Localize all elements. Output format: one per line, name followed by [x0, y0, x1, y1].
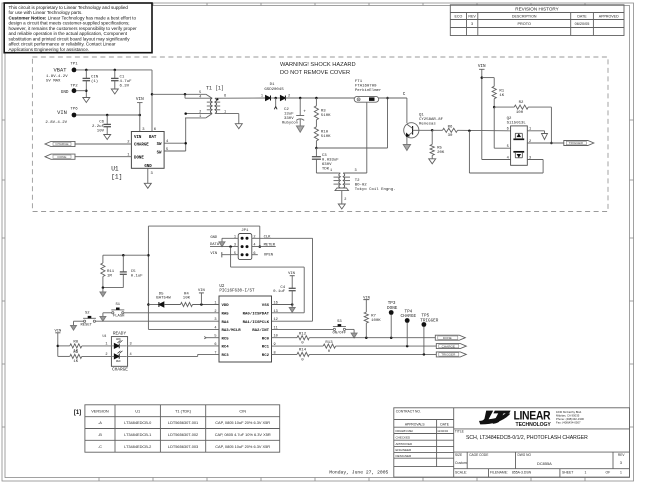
- svg-text:1K: 1K: [499, 94, 504, 98]
- svg-text:APPROVED: APPROVED: [396, 442, 414, 446]
- svg-text:REV: REV: [468, 15, 476, 19]
- svg-text:D1: D1: [270, 83, 275, 87]
- svg-text:RED: RED: [116, 360, 121, 363]
- svg-text:100K: 100K: [371, 319, 381, 323]
- svg-text:06/20/05: 06/20/05: [575, 22, 590, 26]
- svg-text:10V: 10V: [97, 130, 105, 134]
- svg-text:LT3484EDCB-0: LT3484EDCB-0: [124, 420, 152, 425]
- svg-text:CHARGE: CHARGE: [112, 368, 128, 373]
- svg-text:3: 3: [355, 169, 357, 173]
- svg-text:R2: R2: [519, 101, 524, 105]
- svg-text:CAGE CODE: CAGE CODE: [469, 453, 488, 457]
- svg-text:REV: REV: [618, 453, 625, 457]
- svg-text:-A: -A: [98, 420, 102, 425]
- svg-text:RC2: RC2: [262, 354, 270, 358]
- svg-text:3: 3: [620, 460, 622, 465]
- svg-text:R12: R12: [299, 332, 307, 336]
- svg-text:[1]: [1]: [74, 410, 81, 416]
- svg-text:DATE: DATE: [440, 422, 449, 426]
- svg-text:20K: 20K: [437, 151, 445, 155]
- svg-text:6.3V: 6.3V: [120, 85, 130, 89]
- svg-text:LDT565630T-002: LDT565630T-002: [168, 432, 198, 437]
- svg-text:WARNING! SHOCK HAZARD: WARNING! SHOCK HAZARD: [280, 62, 356, 68]
- svg-text:1: 1: [199, 115, 201, 119]
- svg-text:GND: GND: [210, 236, 218, 240]
- svg-text:RA2/INT: RA2/INT: [252, 328, 269, 333]
- svg-text:1: 1: [261, 94, 263, 98]
- svg-text:R11: R11: [107, 270, 115, 274]
- svg-text:LINEAR: LINEAR: [513, 410, 550, 423]
- svg-text:METER: METER: [264, 243, 276, 247]
- svg-text:0.033uF: 0.033uF: [322, 158, 339, 162]
- svg-text:RC0: RC0: [262, 337, 270, 341]
- svg-text:design a circuit that meets cu: design a circuit that meets customer-sup…: [9, 21, 130, 26]
- svg-text:FILENAME:: FILENAME:: [490, 471, 508, 475]
- svg-text:however, it remains the custom: however, it remains the customers respon…: [9, 26, 138, 31]
- svg-text:R9: R9: [73, 351, 78, 355]
- svg-text:510K: 510K: [321, 135, 331, 139]
- svg-text:S3: S3: [337, 320, 342, 324]
- svg-text:R6: R6: [448, 125, 453, 129]
- svg-text:RA5: RA5: [222, 312, 230, 316]
- svg-text:1: 1: [224, 110, 226, 114]
- svg-text:CLK: CLK: [264, 235, 272, 239]
- svg-text:CHECKED: CHECKED: [396, 436, 412, 440]
- svg-text:JP1: JP1: [241, 229, 249, 233]
- svg-text:Custom: Custom: [455, 461, 467, 465]
- svg-text:TITLE: TITLE: [455, 429, 465, 433]
- svg-text:1: 1: [620, 471, 622, 475]
- svg-text:RA3/MCLR: RA3/MCLR: [222, 328, 242, 333]
- svg-text:BO-02: BO-02: [355, 184, 368, 188]
- svg-text:ENGINEER: ENGINEER: [396, 448, 413, 452]
- svg-text:CIN: CIN: [239, 408, 246, 413]
- svg-text:REVISION HISTORY: REVISION HISTORY: [515, 7, 558, 12]
- svg-text:VIN: VIN: [478, 64, 486, 69]
- svg-text:RA0/ICSPDAT: RA0/ICSPDAT: [243, 311, 270, 316]
- svg-text:VBAT: VBAT: [54, 67, 68, 73]
- svg-text:10K: 10K: [183, 297, 191, 301]
- svg-text:4: 4: [130, 353, 132, 357]
- svg-text:DONE: DONE: [134, 156, 144, 160]
- svg-text:R3: R3: [321, 110, 326, 114]
- svg-text:DESIGNER: DESIGNER: [396, 454, 413, 458]
- svg-text:2: 2: [199, 111, 201, 115]
- svg-text:PIC16F630-I/ST: PIC16F630-I/ST: [219, 288, 255, 293]
- svg-text:SIZE: SIZE: [455, 453, 462, 457]
- svg-text:6: 6: [507, 128, 509, 132]
- svg-text:510K: 510K: [321, 114, 331, 118]
- svg-text:11/02/04: 11/02/04: [437, 429, 448, 433]
- svg-text:DONE: DONE: [387, 306, 398, 311]
- svg-text:DC855A: DC855A: [537, 461, 552, 466]
- svg-text:FTA160709: FTA160709: [355, 85, 377, 89]
- svg-text:SW: SW: [157, 143, 162, 147]
- svg-text:-C: -C: [98, 444, 102, 449]
- svg-text:100: 100: [516, 111, 524, 115]
- svg-text:CY258AR-8F: CY258AR-8F: [419, 118, 444, 122]
- svg-text:30: 30: [448, 134, 453, 138]
- svg-text:3: 3: [234, 244, 236, 248]
- svg-text:T2: T2: [355, 179, 360, 183]
- svg-text:substitution and printed circu: substitution and printed circuit board l…: [9, 36, 131, 41]
- svg-text:affect circuit performance or: affect circuit performance or reliabilit…: [9, 42, 116, 47]
- svg-text:OPEN: OPEN: [264, 254, 273, 258]
- svg-text:LT3484EDCB-2: LT3484EDCB-2: [124, 444, 151, 449]
- svg-text:R10: R10: [321, 130, 329, 134]
- svg-text:4: 4: [253, 244, 255, 248]
- svg-text:Applications Engineering for a: Applications Engineering for assistance.: [9, 47, 90, 52]
- svg-text:5V MAX: 5V MAX: [46, 80, 61, 84]
- svg-text:1K: 1K: [73, 360, 78, 364]
- svg-text:+: +: [303, 110, 306, 115]
- svg-text:VIN: VIN: [134, 136, 142, 140]
- svg-text:RC1: RC1: [262, 346, 270, 350]
- svg-text:2.2uF: 2.2uF: [92, 125, 105, 129]
- svg-text:2: 2: [253, 235, 255, 239]
- svg-text:PROTO: PROTO: [517, 22, 530, 26]
- svg-text:T1 (TDK): T1 (TDK): [175, 408, 192, 413]
- svg-text:TP6: TP6: [70, 108, 78, 112]
- svg-text:DRAWN MEI: DRAWN MEI: [396, 429, 414, 433]
- svg-text:FT1: FT1: [355, 80, 363, 84]
- svg-text:3: 3: [130, 343, 132, 347]
- svg-text:13uF: 13uF: [284, 113, 294, 117]
- svg-text:330V: 330V: [284, 117, 294, 121]
- svg-text:GND: GND: [61, 90, 69, 95]
- svg-text:Si15013L: Si15013L: [507, 121, 527, 126]
- svg-text:Q1: Q1: [419, 113, 424, 117]
- svg-text:0.1uF: 0.1uF: [273, 290, 286, 294]
- svg-text:CIN: CIN: [91, 76, 99, 80]
- svg-text:SHEET: SHEET: [562, 471, 573, 475]
- svg-text:(1): (1): [91, 79, 98, 84]
- svg-text:BAT: BAT: [149, 136, 157, 140]
- svg-text:T1 [1]: T1 [1]: [206, 86, 224, 92]
- svg-text:SW: SW: [157, 152, 162, 156]
- svg-text:U1: U1: [111, 165, 119, 172]
- svg-text:Monday, June 27, 2005: Monday, June 27, 2005: [329, 469, 388, 475]
- svg-text:DESCRIPTION: DESCRIPTION: [512, 15, 537, 19]
- svg-text:TP1: TP1: [70, 63, 78, 67]
- svg-text:R13: R13: [325, 341, 333, 345]
- svg-text:LDT565630T-001: LDT565630T-001: [168, 420, 198, 425]
- svg-text:BAT54W: BAT54W: [156, 297, 171, 301]
- svg-text:1: 1: [330, 169, 332, 173]
- svg-text:4: 4: [507, 156, 509, 160]
- svg-text:RA4: RA4: [222, 321, 230, 325]
- svg-text:1M: 1M: [107, 274, 112, 278]
- svg-text:R8: R8: [73, 341, 78, 345]
- svg-text:12: 12: [274, 318, 278, 322]
- svg-text:Tokyo Coil Engng.: Tokyo Coil Engng.: [355, 187, 396, 192]
- svg-text:OF: OF: [606, 471, 611, 475]
- svg-text:4: 4: [199, 96, 201, 100]
- svg-text:U4: U4: [102, 334, 106, 338]
- svg-text:2.8V-4.2V: 2.8V-4.2V: [45, 121, 67, 125]
- svg-text:VERSION: VERSION: [91, 408, 109, 413]
- svg-text:for use with Linear Technology: for use with Linear Technology parts.: [9, 10, 83, 15]
- svg-text:6: 6: [253, 252, 255, 256]
- svg-text:APPROVALS: APPROVALS: [405, 422, 426, 426]
- svg-text:READY: READY: [113, 331, 127, 336]
- svg-text:C6: C6: [99, 121, 104, 125]
- svg-text:LDT565630T-003: LDT565630T-003: [168, 444, 198, 449]
- svg-text:CONTRACT NO.: CONTRACT NO.: [396, 410, 421, 414]
- svg-text:VSS: VSS: [262, 304, 270, 308]
- svg-text:R14: R14: [299, 349, 307, 353]
- svg-text:APPROVED: APPROVED: [599, 15, 619, 19]
- svg-text:-B: -B: [98, 432, 102, 437]
- svg-text:Rubycon: Rubycon: [282, 121, 298, 126]
- svg-text:TP2: TP2: [70, 84, 78, 88]
- svg-text:S2: S2: [85, 311, 90, 315]
- svg-text:RESET: RESET: [80, 324, 92, 328]
- svg-text:0.1uF: 0.1uF: [131, 275, 144, 279]
- svg-text:VIN: VIN: [210, 252, 217, 256]
- svg-text:DATE: DATE: [577, 15, 587, 19]
- svg-text:CHARGE: CHARGE: [134, 144, 149, 148]
- svg-text:LT3484EDCB-1: LT3484EDCB-1: [124, 432, 151, 437]
- svg-text:R5: R5: [437, 147, 442, 151]
- svg-text:C1: C1: [120, 76, 125, 80]
- svg-text:[1]: [1]: [111, 174, 122, 181]
- svg-text:C: C: [403, 92, 406, 97]
- svg-text:ECO: ECO: [455, 15, 463, 19]
- svg-text:S1: S1: [116, 303, 121, 307]
- svg-text:4.7uF: 4.7uF: [120, 80, 133, 84]
- svg-text:6: 6: [214, 343, 216, 347]
- svg-text:VIN: VIN: [136, 97, 144, 102]
- svg-text:1: 1: [234, 235, 236, 239]
- svg-text:630V: 630V: [322, 163, 332, 167]
- svg-text:TRIGGER: TRIGGER: [420, 318, 438, 323]
- svg-text:RC3: RC3: [222, 354, 230, 358]
- svg-text:5: 5: [199, 91, 201, 95]
- svg-text:TECHNOLOGY: TECHNOLOGY: [516, 422, 552, 428]
- svg-text:Fax: (408)434-0507: Fax: (408)434-0507: [556, 420, 581, 424]
- svg-text:RC4: RC4: [222, 346, 230, 350]
- svg-text:VDD: VDD: [222, 304, 230, 308]
- svg-text:6: 6: [224, 95, 226, 99]
- svg-text:RA1/ICSPCLK: RA1/ICSPCLK: [243, 320, 270, 325]
- svg-text:DWG NO: DWG NO: [518, 453, 532, 457]
- svg-text:SCH, LT3484EDCB-0/1/2, PHOTOFL: SCH, LT3484EDCB-0/1/2, PHOTOFLASH CHARGE…: [466, 435, 588, 441]
- svg-text:CAP, 0805 4.7uF 10% 6.3V X5R: CAP, 0805 4.7uF 10% 6.3V X5R: [215, 432, 271, 437]
- svg-text:PerkinElmer: PerkinElmer: [355, 88, 382, 93]
- svg-text:DO NOT REMOVE COVER: DO NOT REMOVE COVER: [280, 70, 350, 76]
- svg-text:DATA: DATA: [210, 243, 220, 247]
- svg-text:ON/OFF: ON/OFF: [332, 331, 346, 336]
- svg-text:C5: C5: [131, 270, 136, 274]
- svg-text:855A-3.DSN: 855A-3.DSN: [512, 471, 532, 475]
- svg-text:TDK: TDK: [322, 167, 330, 171]
- svg-text:VIN: VIN: [57, 110, 67, 116]
- svg-text:CHARGE: CHARGE: [401, 314, 417, 319]
- svg-text:CAP, 0805 10uF 20% 6.3V X5R: CAP, 0805 10uF 20% 6.3V X5R: [215, 444, 270, 449]
- svg-text:1.8V-4.2V: 1.8V-4.2V: [46, 75, 68, 79]
- svg-text:GND: GND: [144, 165, 152, 169]
- svg-text:Q2: Q2: [507, 117, 512, 121]
- svg-text:and reliable operation in the: and reliable operation in the actual app…: [9, 31, 128, 36]
- svg-text:1: 1: [585, 471, 587, 475]
- svg-text:SCALE:: SCALE:: [455, 471, 467, 475]
- svg-text:Customer Notice: Linear Techno: Customer Notice: Linear Technology has m…: [9, 15, 137, 20]
- svg-text:5: 5: [507, 145, 509, 149]
- svg-text:3: 3: [471, 22, 473, 26]
- svg-text:FLASH: FLASH: [113, 315, 124, 319]
- svg-text:2: 2: [344, 198, 346, 202]
- svg-text:C3: C3: [322, 154, 327, 158]
- svg-text:C2: C2: [284, 108, 289, 112]
- svg-text:This circuit is proprietary to: This circuit is proprietary to Linear Te…: [9, 5, 129, 10]
- svg-text:U2: U2: [219, 285, 225, 289]
- svg-text:CAP, 0805 10uF 20% 6.3V X5R: CAP, 0805 10uF 20% 6.3V X5R: [215, 420, 270, 425]
- svg-text:R1: R1: [499, 90, 504, 94]
- svg-text:+: +: [358, 99, 360, 103]
- svg-text:13: 13: [274, 310, 278, 314]
- svg-text:RC5: RC5: [222, 337, 230, 341]
- svg-text:5: 5: [234, 252, 236, 256]
- svg-text:R7: R7: [371, 315, 376, 319]
- svg-text:U1: U1: [135, 408, 140, 413]
- svg-text:Renesas: Renesas: [419, 122, 436, 126]
- svg-text:GSD2004S: GSD2004S: [264, 88, 284, 92]
